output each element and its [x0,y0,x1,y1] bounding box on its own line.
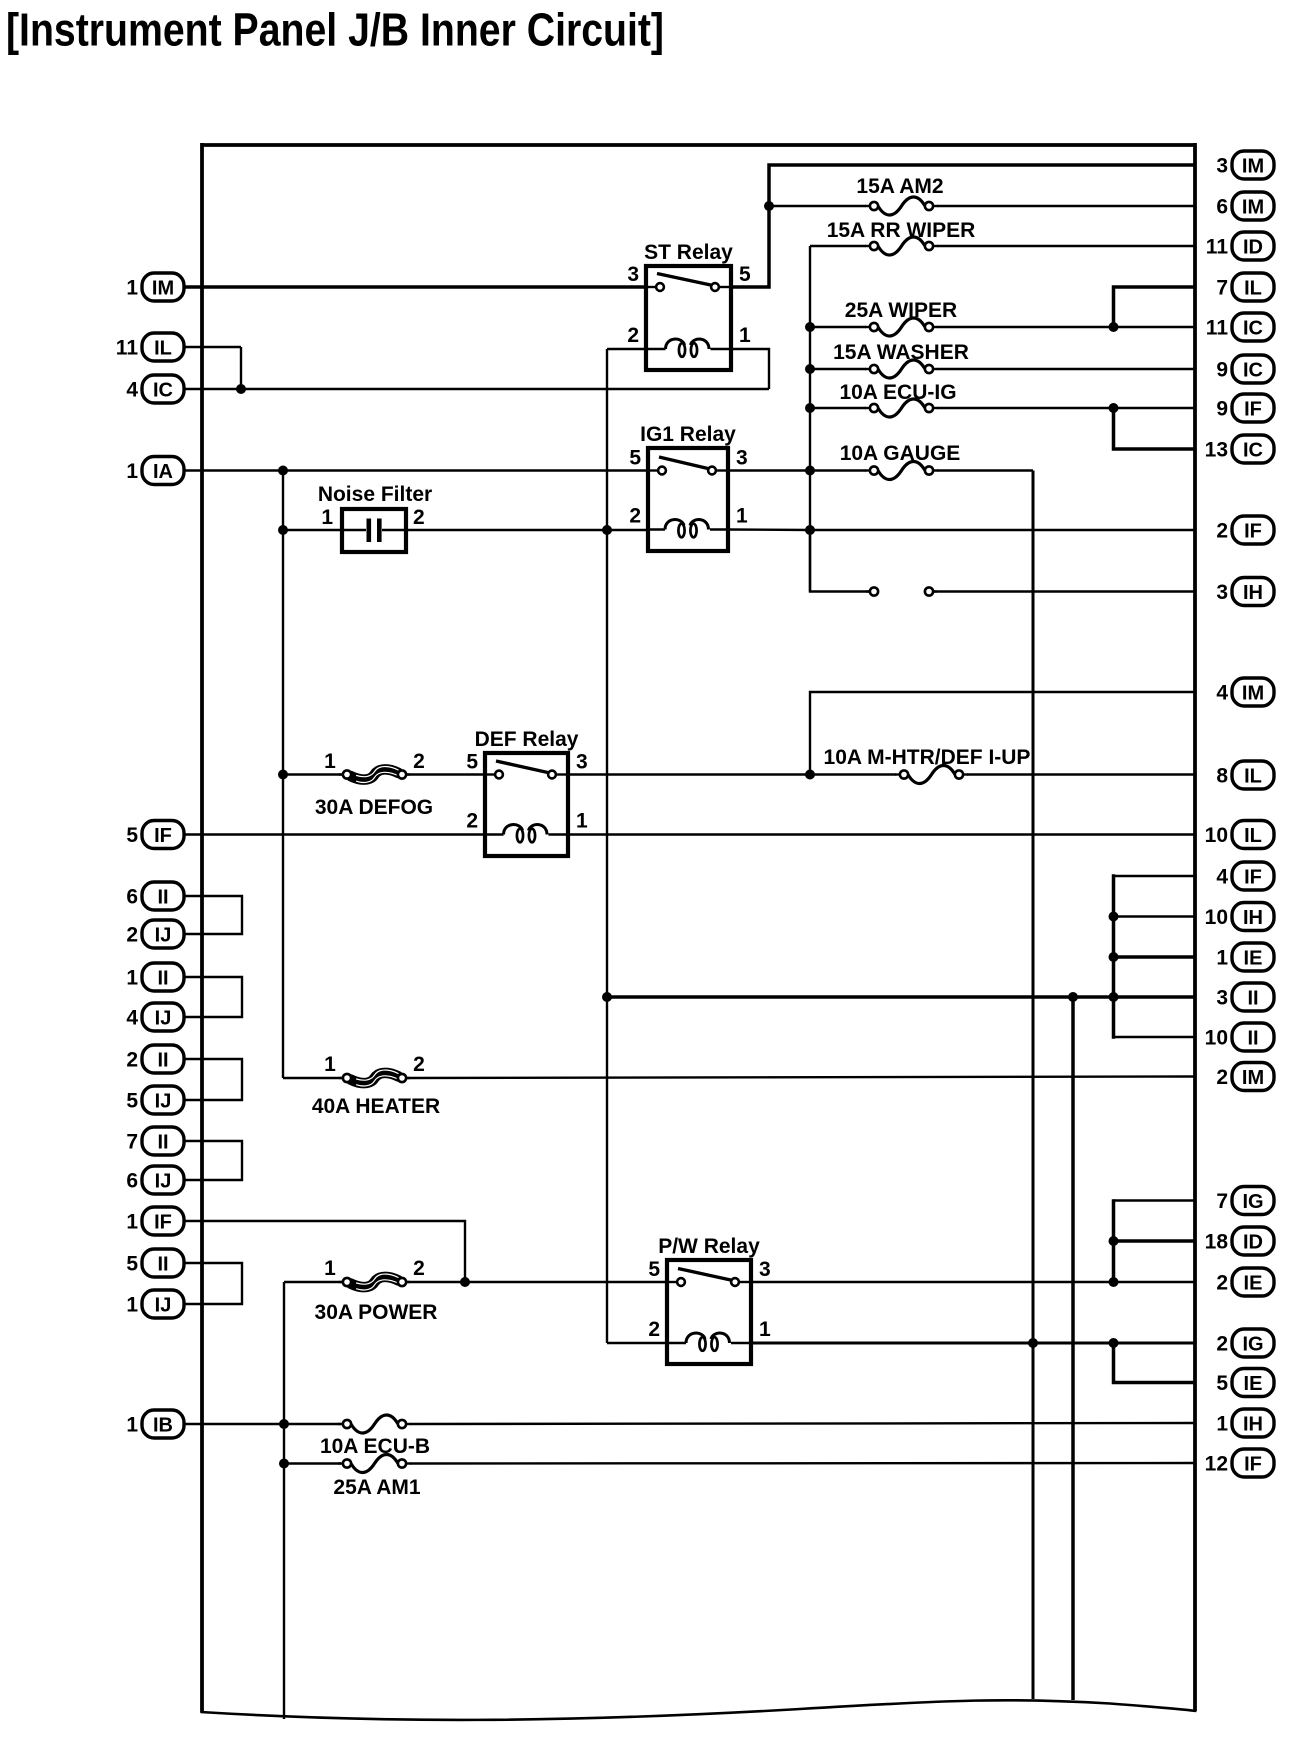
svg-text:IF: IF [154,1212,172,1234]
wire 2 IF row [810,529,1195,531]
svg-text:3: 3 [736,447,748,470]
wire 25A WIPER to 11 IC [937,326,1195,328]
svg-text:II: II [1247,988,1258,1010]
svg-text:25A AM1: 25A AM1 [333,1476,420,1499]
connector pin 5 II (left) [126,1249,184,1277]
connector pin 2 II (left) [126,1045,184,1073]
junction POWER / 1 IF / P-W pin5 [460,1277,470,1287]
svg-text:7: 7 [1216,1190,1228,1213]
svg-text:3: 3 [576,751,588,774]
wire GAUGE fuse stub [810,469,866,471]
wire 5 IF row to DEF pin2 [184,833,485,835]
svg-text:1: 1 [324,1257,336,1280]
connector pin 6 IM (right) [1216,192,1274,220]
svg-text:IH: IH [1243,582,1263,604]
svg-text:15A AM2: 15A AM2 [856,175,943,198]
svg-text:10A GAUGE: 10A GAUGE [840,442,961,465]
fuse 10A ECU-B [338,1423,347,1425]
connector pin 3 IM (right) [1216,151,1274,179]
svg-text:15A WASHER: 15A WASHER [833,341,969,364]
svg-text:3: 3 [627,263,639,286]
junction noise filter feed [278,525,288,535]
svg-text:IE: IE [1244,1273,1263,1295]
svg-text:40A HEATER: 40A HEATER [312,1095,440,1118]
svg-text:6: 6 [126,1170,138,1193]
svg-text:6: 6 [126,886,138,909]
connector pin 12 IF (right) [1205,1449,1274,1477]
svg-text:30A POWER: 30A POWER [315,1301,438,1324]
connector pin 1 IH (right) [1216,1409,1274,1437]
svg-text:3: 3 [1216,581,1228,604]
svg-text:10: 10 [1205,1027,1228,1050]
svg-text:IE: IE [1244,948,1263,970]
connector pin 2 IF (right) [1216,516,1274,544]
svg-text:IE: IE [1244,1373,1263,1395]
svg-text:ID: ID [1243,237,1263,259]
svg-text:1: 1 [321,506,333,529]
svg-text:10A M-HTR/DEF I-UP: 10A M-HTR/DEF I-UP [824,746,1031,769]
svg-text:1: 1 [736,505,748,528]
svg-text:1: 1 [126,967,138,990]
wire 3 IH gap to border [933,590,1195,592]
wire AM1 to 12 IF [410,1462,1195,1465]
connector pin 11 ID (right) [1206,232,1274,260]
fuse 15A WASHER [865,368,874,370]
svg-text:IJ: IJ [155,1295,172,1317]
wire 10A ECU-IG to 9 IF [937,407,1195,409]
svg-text:30A DEFOG: 30A DEFOG [315,796,433,819]
junction M-HTR feed [805,770,815,780]
svg-text:IA: IA [153,461,173,483]
bracket 2 IG to 5 IE (thick) [1114,1343,1196,1383]
svg-text:IF: IF [1244,1454,1262,1476]
wire 1 IM row (thick) [184,285,646,289]
svg-text:IL: IL [1244,766,1262,788]
wire DEFOG fuse stub [283,773,344,775]
wire DEF pin3 out [568,773,810,775]
svg-text:5: 5 [126,1090,138,1113]
connector pin 4 IC (left) [126,375,184,403]
svg-text:2: 2 [466,810,478,833]
svg-text:2: 2 [126,1049,138,1072]
relay ST (U1) [646,266,731,370]
svg-text:2: 2 [1216,520,1228,543]
junction 3 II / down vertical [1068,992,1078,1002]
connector pin 2 IG (right) [1216,1329,1274,1357]
fuse 15A RR WIPER [865,245,874,247]
wire ST pin5 up to 3 IM row (thick) [731,165,1195,287]
connector pin 13 IC (right) [1205,435,1274,463]
svg-text:DEF Relay: DEF Relay [475,728,579,751]
svg-text:2: 2 [629,505,641,528]
junction GAUGE feed [805,466,815,476]
jumper bracket 1 II - 4 IJ [184,977,242,1017]
junction bracket 9 IF [1109,403,1119,413]
svg-text:4: 4 [1216,866,1228,889]
junction AM1 feed [279,1459,289,1469]
svg-text:5: 5 [739,263,751,286]
wire POWER link corner [284,1281,344,1283]
wire drop to 3 IH gap [810,530,870,592]
svg-text:3: 3 [1216,987,1228,1010]
bracket 7 IG to 2 IE [1114,1199,1196,1201]
wire IG1 pin1 out [728,528,810,531]
junction DEFOG feed [278,770,288,780]
wire DEF pin1 to 10 IL [568,833,1195,835]
junction WIPER feed [805,322,815,332]
relay P/W (U4) [667,1260,751,1364]
svg-text:4: 4 [126,379,138,402]
wire ST relay pin1 drop [731,349,769,389]
junction 11 IL / 4 IC [236,384,246,394]
wire 11 IL stub [184,346,241,348]
wire IA bus corner to HEATER link [283,1077,344,1079]
wire ECU-IG fuse stub [810,407,866,409]
svg-text:5: 5 [126,824,138,847]
junction bracket 2 IE [1109,1277,1119,1287]
outer box top border [202,143,1196,147]
svg-text:2: 2 [1216,1333,1228,1356]
wire HEATER to 2 IM [405,1077,1195,1079]
svg-text:IL: IL [1244,278,1262,300]
svg-text:IJ: IJ [155,1171,172,1193]
svg-text:10: 10 [1205,906,1228,929]
fuse 25A AM1 [338,1462,347,1464]
svg-text:5: 5 [648,1258,660,1281]
svg-text:Noise Filter: Noise Filter [318,483,432,506]
junction bracket 3 II [1109,992,1119,1002]
svg-text:IH: IH [1243,907,1263,929]
svg-text:IM: IM [1242,156,1264,178]
svg-text:2: 2 [413,506,425,529]
junction bracket 2 IG [1109,1338,1119,1348]
connector pin 6 II (left) [126,882,184,910]
outer box right border [1193,143,1197,1711]
connector pin 7 IG (right) [1216,1187,1274,1215]
connector pin 3 II (right) [1216,983,1274,1011]
connector pin 2 IM (right) [1216,1063,1274,1091]
vertical coil bus x607 [606,349,608,1343]
wire ECU-B to 1 IH [410,1423,1195,1424]
svg-text:1: 1 [1216,947,1228,970]
wire 15A WASHER to 9 IC [937,368,1195,370]
relay IG1 (U2) [648,448,728,551]
svg-text:8: 8 [1216,765,1228,788]
wire 1 IB row [184,1423,341,1425]
svg-text:2: 2 [413,1053,425,1076]
connector pin 5 IF (left) [126,821,184,849]
svg-text:II: II [1247,1028,1258,1050]
svg-text:1: 1 [576,810,588,833]
connector pin 8 IL (right) [1216,761,1274,789]
svg-text:IC: IC [1243,318,1263,340]
svg-text:IM: IM [152,278,174,300]
svg-text:IJ: IJ [155,1091,172,1113]
svg-text:II: II [157,1254,168,1276]
svg-text:IF: IF [1244,521,1262,543]
svg-text:4: 4 [126,1007,138,1030]
jumper bracket 6 II - 2 IJ [184,896,242,934]
svg-text:12: 12 [1205,1453,1228,1476]
svg-text:11: 11 [116,337,139,360]
svg-text:IG: IG [1242,1334,1263,1356]
connector pin 1 IF (left) [126,1207,184,1235]
wire 18 ID stub (thick) [1114,1239,1196,1243]
wire AM1 fuse stub [284,1462,341,1464]
wire 3 II row (thick) [607,995,1195,999]
vertical distribution x1033 [1032,471,1035,1700]
svg-text:II: II [157,1132,168,1154]
wire ST coil pin2 to coil bus [607,348,646,350]
svg-text:6: 6 [1216,196,1228,219]
svg-text:1: 1 [324,750,336,773]
svg-text:IM: IM [1242,683,1264,705]
svg-text:IF: IF [1244,867,1262,889]
bracket 9 IF to 13 IC (thick) [1114,408,1196,449]
wire P/W pin1 coil out (med) [751,1342,1195,1345]
junction ECU-IG feed [805,403,815,413]
connector pin 11 IC (right) [1206,313,1274,341]
fuse 25A WIPER [865,326,874,328]
connector pin 10 IH (right) [1205,903,1274,931]
wire WASHER fuse stub [810,368,866,370]
jumper bracket 2 II - 5 IJ [184,1059,242,1100]
svg-text:2: 2 [648,1318,660,1341]
connector pin 2 IJ (left) [126,920,184,948]
noise filter N1 [342,509,406,552]
wire 1 IF row [184,1221,465,1282]
svg-text:IJ: IJ [155,925,172,947]
junction ST pin5 / 15A AM2 feed [764,201,774,211]
svg-text:1: 1 [739,324,751,347]
junction IB / POWER bus [279,1419,289,1429]
svg-text:2: 2 [1216,1066,1228,1089]
wire RR WIPER fuse stub left [810,245,866,247]
svg-text:IC: IC [1243,360,1263,382]
fusible link 30A POWER [339,1281,347,1283]
junction bracket 1 IE [1109,952,1119,962]
wire 4 IC row [184,388,769,390]
fusible link 30A DEFOG [339,773,347,775]
svg-text:IL: IL [154,338,172,360]
svg-text:1: 1 [759,1318,771,1341]
svg-text:II: II [157,887,168,909]
wire M-HTR to 8 IL [967,773,1195,775]
svg-text:2: 2 [413,1257,425,1280]
junction coil bus / filter row [602,525,612,535]
connector pin 7 IL (right) [1216,273,1274,301]
connector pin 6 IJ (left) [126,1166,184,1194]
svg-text:18: 18 [1205,1231,1229,1254]
svg-text:7: 7 [126,1131,138,1154]
svg-text:15A RR WIPER: 15A RR WIPER [827,219,976,242]
junction IG1 coil out / 2 IF [805,525,815,535]
svg-text:IJ: IJ [155,1008,172,1030]
svg-text:IH: IH [1243,1414,1263,1436]
wire 6 IM fuse feed [769,205,866,207]
connector pin 9 IF (right) [1216,394,1274,422]
svg-text:3: 3 [1216,155,1228,178]
svg-text:5: 5 [1216,1372,1228,1395]
wire POWER to junction [405,1281,465,1283]
svg-text:2: 2 [1216,1272,1228,1295]
svg-text:10A ECU-B: 10A ECU-B [320,1435,430,1458]
fuse 15A AM2 [865,205,874,207]
connector pin 10 II (right) [1205,1023,1274,1051]
jumper bracket 5 II - 1 IJ [184,1263,242,1304]
svg-text:11: 11 [1206,236,1229,259]
wire 10A GAUGE output down [937,469,1033,471]
wire drop to noise filter [282,471,284,531]
wire DEFOG to DEF pin5 [405,773,485,775]
connector pin 9 IC (right) [1216,355,1274,383]
wire junction to P/W pin5 [465,1281,667,1283]
svg-text:P/W Relay: P/W Relay [658,1235,760,1258]
connector pin 4 IM (right) [1216,678,1274,706]
wire RR WIPER feed vertical [809,246,811,592]
connector pin 4 IF (right) [1216,862,1274,890]
junction bracket 18 ID [1109,1236,1119,1246]
bracket 4 IF to 10 II [1114,875,1196,877]
junction coil out / x1033 vertical [1028,1338,1038,1348]
connector pin 11 IL (left) [116,333,184,361]
svg-text:IF: IF [154,825,172,847]
connector pin 2 IE (right) [1216,1268,1274,1296]
junction coil bus / 3 II [602,992,612,1002]
jumper bracket 7 II - 6 IJ [184,1141,242,1180]
svg-text:IM: IM [1242,197,1264,219]
wire 11 IL to 4 IC vertical [240,347,242,389]
svg-text:10A ECU-IG: 10A ECU-IG [839,381,956,404]
wire noise filter feed [283,529,342,531]
svg-text:4: 4 [1216,682,1228,705]
svg-text:1: 1 [1216,1413,1228,1436]
connector pin 4 IJ (left) [126,1003,184,1031]
fuse 10A GAUGE [865,469,874,471]
svg-text:ID: ID [1243,1232,1263,1254]
wire P/W pin3 to 2 IE [751,1281,1195,1283]
wire P/W coil pin2 entry [607,1342,667,1344]
svg-text:13: 13 [1205,439,1228,462]
connector pin 10 IL (right) [1205,821,1274,849]
svg-text:9: 9 [1216,398,1228,421]
svg-text:5: 5 [126,1253,138,1276]
wire IA bus down to DEFOG [282,530,284,1078]
svg-text:IF: IF [1244,399,1262,421]
connector pin 1 IE (right) [1216,943,1274,971]
svg-text:ST Relay: ST Relay [644,241,733,264]
connector pin 1 IA (left) [126,457,184,485]
wire 1 IE stub (thick) [1114,955,1196,959]
wire 1 IA row [184,469,646,471]
wire 15A RR WIPER to 11 ID [937,245,1195,247]
connector pin 7 II (left) [126,1127,184,1155]
svg-text:1: 1 [126,1414,138,1437]
connector pin 1 IM (left) [126,273,184,301]
svg-text:5: 5 [466,751,478,774]
svg-text:2: 2 [413,750,425,773]
wire 10 IH stub [1114,915,1196,917]
svg-text:IG1 Relay: IG1 Relay [640,423,736,446]
svg-text:7: 7 [1216,277,1228,300]
junction bracket 11 IC [1109,322,1119,332]
connector pin 5 IE (right) [1216,1369,1274,1397]
svg-text:11: 11 [1206,317,1229,340]
wire 15A AM2 to 6 IM [937,205,1195,207]
svg-text:2: 2 [627,324,639,347]
bracket 7 IL to 11 IC (thick) [1114,287,1196,327]
connector pin 3 IH (right) [1216,578,1274,606]
svg-text:10: 10 [1205,824,1228,847]
relay DEF (U3) [485,753,568,856]
connector pin 1 IJ (left) [126,1290,184,1318]
svg-text:IG: IG [1242,1191,1263,1213]
wire WIPER fuse stub [810,326,866,328]
wire IG1 pin3 out [728,469,810,471]
svg-text:9: 9 [1216,359,1228,382]
fuse 10A ECU-IG [865,407,874,409]
inline connector gap on 3 IH row [866,590,874,592]
junction WASHER feed [805,364,815,374]
svg-text:II: II [157,1050,168,1072]
wire noise filter to IG1 pin2 [406,529,648,531]
svg-text:2: 2 [126,924,138,947]
vertical POWER bus x284 [283,1282,285,1719]
connector pin 1 IB (left) [126,1410,184,1438]
svg-text:1: 1 [126,277,138,300]
svg-text:IC: IC [1243,440,1263,462]
fusible link 40A HEATER [339,1077,347,1079]
connector pin 18 ID (right) [1205,1227,1274,1255]
svg-text:IM: IM [1242,1067,1264,1089]
svg-text:1: 1 [324,1053,336,1076]
junction IA / filter drop [278,466,288,476]
connector pin 1 II (left) [126,963,184,991]
svg-text:1: 1 [126,1211,138,1234]
svg-text:IC: IC [153,380,173,402]
connector pin 5 IJ (left) [126,1086,184,1114]
svg-text:IL: IL [1244,825,1262,847]
vertical distribution x1073 [1071,997,1075,1700]
outer box wavy bottom edge [201,1700,1197,1720]
svg-text:IB: IB [153,1415,173,1437]
svg-text:3: 3 [759,1258,771,1281]
svg-text:1: 1 [126,460,138,483]
svg-text:5: 5 [629,447,641,470]
junction bracket 10 IH [1109,912,1119,922]
svg-text:1: 1 [126,1294,138,1317]
outer box left border [200,143,204,1713]
wire M-HTR fuse stub [810,773,896,775]
wire 4 IM row [810,692,1195,775]
svg-text:25A WIPER: 25A WIPER [845,299,957,322]
svg-text:II: II [157,968,168,990]
svg-text:[Instrument Panel J/B Inner Ci: [Instrument Panel J/B Inner Circuit] [6,4,664,56]
fuse 10A M-HTR/DEF I-UP [895,773,904,775]
